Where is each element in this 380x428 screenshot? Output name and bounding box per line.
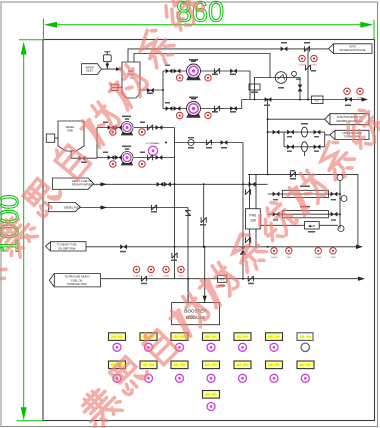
svg-text:HEAVY FUEL OIL: HEAVY FUEL OIL <box>72 179 93 183</box>
svg-text:CLASS: CLASS <box>162 275 170 278</box>
svg-text:FROM PURIFIER: FROM PURIFIER <box>72 183 93 187</box>
svg-text:MT: MT <box>311 224 315 228</box>
svg-text:TO PROVIDE HEAVY: TO PROVIDE HEAVY <box>64 275 90 279</box>
svg-text:VT: VT <box>220 278 224 282</box>
svg-text:OMD: OMD <box>311 65 317 67</box>
svg-text:STORAGE TANK: STORAGE TANK <box>67 282 87 286</box>
svg-text:TANK: TANK <box>67 130 74 133</box>
svg-text:CLASS: CLASS <box>298 64 306 67</box>
svg-text:TO HEAVY FUEL: TO HEAVY FUEL <box>57 243 78 247</box>
svg-text:INLET: INLET <box>86 70 93 73</box>
svg-text:CLASS: CLASS <box>270 256 278 259</box>
svg-text:VPRS: VPRS <box>357 97 363 99</box>
svg-text:CLASS: CLASS <box>133 275 141 278</box>
svg-text:PHE: PHE <box>249 214 257 218</box>
svg-text:OIL SER TANK: OIL SER TANK <box>58 246 76 250</box>
svg-text:DIESEL FUEL: DIESEL FUEL <box>64 206 81 210</box>
svg-text:FO PRIMARY: FO PRIMARY <box>146 142 160 145</box>
svg-text:FUNCTION AFTER TO: FUNCTION AFTER TO <box>337 116 362 119</box>
svg-text:130: 130 <box>250 219 256 223</box>
svg-text:OMD: OMD <box>178 276 184 278</box>
svg-text:OMD: OMD <box>330 257 336 259</box>
svg-text:FUEL OIL: FUEL OIL <box>71 278 83 282</box>
svg-text:CLASS: CLASS <box>343 96 351 99</box>
svg-text:INS REGULATION LINE: INS REGULATION LINE <box>340 49 366 52</box>
svg-text:OMD: OMD <box>148 276 154 278</box>
svg-text:FLT: FLT <box>315 98 320 102</box>
svg-text:OMD: OMD <box>286 257 292 259</box>
svg-text:CLASS: CLASS <box>315 256 323 259</box>
